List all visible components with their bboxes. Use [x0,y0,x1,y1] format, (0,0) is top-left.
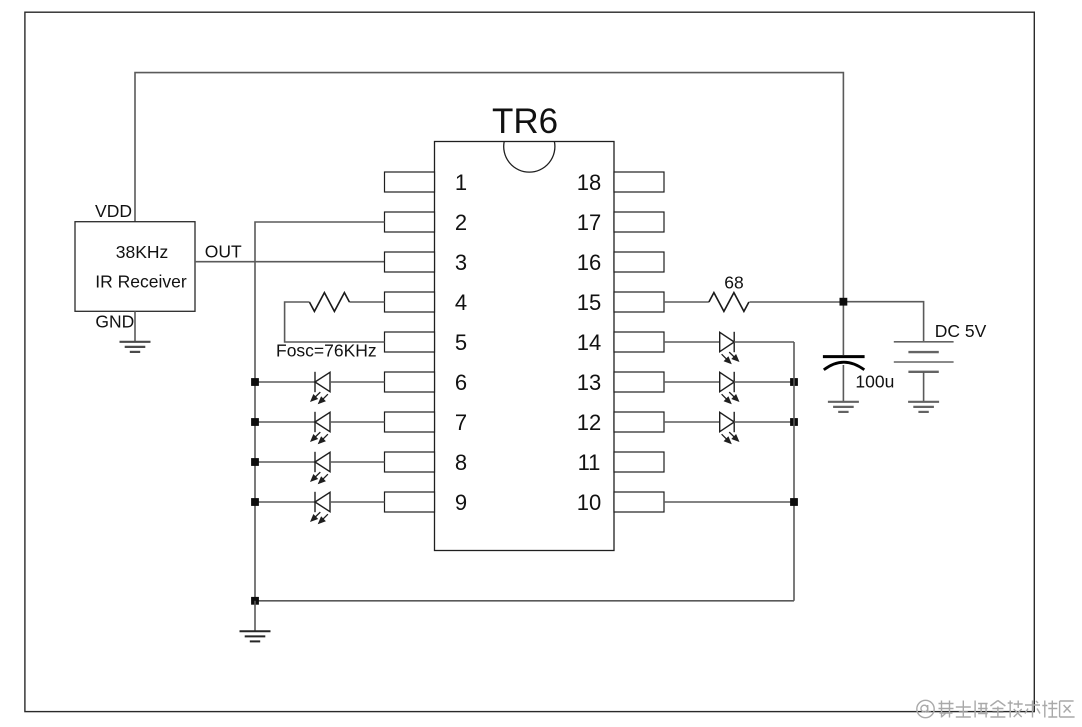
svg-text:3: 3 [455,250,467,275]
LED D4 (pin 9) [310,492,330,524]
pin box pin 17 [614,212,664,232]
pin box pin 18 [614,172,664,192]
pin box pin 5 [385,332,435,352]
svg-text:7: 7 [455,410,467,435]
IC U1 TR6 body [435,142,615,551]
wire pin 15 to resistor R1 [664,301,709,303]
pin box pin 10 [614,492,664,512]
pin box pin 12 [614,412,664,432]
pin box pin 9 [385,492,435,512]
wire left bus to LED D3 cathode [255,461,315,463]
svg-text:DC 5V: DC 5V [935,321,987,341]
junction VDD node [840,298,848,306]
svg-text:12: 12 [577,410,601,435]
svg-text:IR Receiver: IR Receiver [95,271,187,291]
wire left bus to ground [254,601,256,632]
pin box pin 2 [385,212,435,232]
svg-text:13: 13 [577,370,601,395]
LED D3 (pin 8) [310,452,330,484]
wire LED D1 anode to pin 6 [330,381,385,383]
wire VDD net: IR receiver VDD up, across top rail, down to junction and capacitor [135,73,843,355]
resistor R2 Fosc (between pins 4 and 5) [309,293,349,312]
wire battery negative to ground [923,372,925,402]
wire LED D6 cathode to right bus [734,381,794,383]
LED D1 (pin 6) [310,372,330,404]
svg-text:GND: GND [95,311,134,331]
svg-text:2: 2 [455,210,467,235]
svg-text:14: 14 [577,330,601,355]
svg-text:11: 11 [578,450,601,475]
junction left bus / LED D3 row [251,458,259,466]
svg-text:4: 4 [455,290,467,315]
LED D5 (pin 14) [720,332,740,364]
ground symbol under battery [908,402,939,412]
junction right bus / pin 10 [790,498,798,506]
svg-text:Fosc=76KHz: Fosc=76KHz [276,340,377,360]
wire pin 10 to right bus [664,501,794,503]
pin box pin 14 [614,332,664,352]
svg-text:TR6: TR6 [492,102,558,141]
svg-text:15: 15 [577,290,601,315]
svg-text:8: 8 [455,450,467,475]
wire LED D2 anode to pin 7 [330,421,385,423]
svg-text:38KHz: 38KHz [116,242,169,262]
junction left bus / bottom return [251,597,259,605]
capacitor C1 100u polarized [823,357,865,370]
wire IR receiver GND to ground [134,311,136,342]
junction left bus / LED D2 row [251,418,259,426]
svg-text:5: 5 [455,330,467,355]
svg-text:6: 6 [455,370,467,395]
wire right cathode bus [793,342,795,601]
LED D2 (pin 7) [310,412,330,444]
junction right bus / LED D6 row [790,378,798,386]
wire resistor R1 to VDD junction [749,301,843,303]
battery BT1 DC 5V [894,342,954,372]
svg-text:17: 17 [577,210,601,235]
wire pin 4 to resistor R2 [349,301,384,303]
wire left bus to LED D4 cathode [255,501,315,503]
pin box pin 16 [614,252,664,272]
wire capacitor C1 to ground [842,365,844,402]
pin box pin 7 [385,412,435,432]
wire left bus to LED D2 cathode [255,421,315,423]
pin box pin 6 [385,372,435,392]
pin box pin 13 [614,372,664,392]
wire pin 2 to left cathode bus down to ground node [255,222,385,601]
resistor R1 68 ohm [709,293,749,312]
wire LED D3 anode to pin 8 [330,461,385,463]
LED D6 (pin 13) [720,372,740,404]
ground symbol under IR receiver [120,342,151,352]
wire LED D4 anode to pin 9 [330,501,385,503]
svg-text:1: 1 [455,170,467,195]
LED D7 (pin 12) [720,412,740,444]
ground symbol main [240,631,271,641]
watermark @ Juejin community (grey) [917,700,1075,717]
wire pin 13 to LED D6 anode [664,381,720,383]
wire left bus to LED D1 cathode [255,381,315,383]
pin box pin 8 [385,452,435,472]
svg-text:VDD: VDD [95,201,132,221]
wire LED D7 cathode to right bus [734,421,794,423]
svg-text:OUT: OUT [205,241,242,261]
junction left bus / LED D4 row [251,498,259,506]
IC notch [504,142,555,173]
svg-text:18: 18 [577,170,601,195]
junction right bus / LED D7 row [790,418,798,426]
junction left bus / LED D1 row [251,378,259,386]
ground symbol under capacitor C1 [828,402,859,412]
IR receiver module U2 (38KHz IR Receiver) [75,222,195,312]
pin box pin 4 [385,292,435,312]
wire VDD junction to battery positive [843,302,923,342]
wire resistor R2 to pin 5 [285,302,385,342]
wire OUT to pin 3 [195,261,385,263]
wire bottom return bus [255,600,794,602]
pin box pin 11 [614,452,664,472]
svg-text:100u: 100u [855,371,894,391]
svg-text:10: 10 [577,490,601,515]
pin box pin 1 [385,172,435,192]
pin box pin 15 [614,292,664,312]
wire LED D5 cathode to right bus [734,341,794,343]
svg-text:9: 9 [455,490,467,515]
svg-text:16: 16 [577,250,601,275]
wire pin 14 to LED D5 anode [664,341,720,343]
wire pin 12 to LED D7 anode [664,421,720,423]
pin box pin 3 [385,252,435,272]
svg-text:68: 68 [724,272,743,292]
